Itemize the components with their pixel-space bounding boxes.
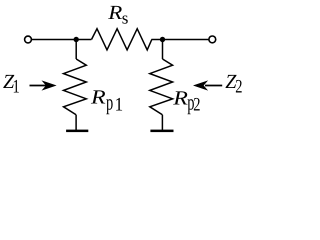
wire: node B down to Rp2 <box>162 40 164 60</box>
svg-text:R: R <box>172 87 188 109</box>
wire: Rp1 to ground <box>75 115 77 131</box>
wire: Rs to right terminal <box>151 39 208 41</box>
resistor Rp1 <box>64 59 87 115</box>
wire: left terminal to Rs <box>32 39 91 41</box>
ground (right bar) <box>150 130 173 133</box>
svg-text:R: R <box>107 2 122 24</box>
resistor Rs <box>92 29 152 50</box>
resistor Rp2 <box>150 59 173 115</box>
svg-text:2: 2 <box>235 76 242 97</box>
terminal T2 (right open circle) <box>209 36 216 43</box>
svg-text:2: 2 <box>193 94 200 115</box>
wire: node A down to Rp1 <box>75 40 77 60</box>
svg-text:p: p <box>106 90 113 115</box>
node B (junction dot right) <box>160 37 165 42</box>
node A (junction dot left) <box>74 37 79 42</box>
terminal T1 (left open circle) <box>25 36 32 43</box>
svg-text:1: 1 <box>115 94 124 115</box>
wire: Rp2 to ground <box>161 115 163 131</box>
svg-text:1: 1 <box>13 76 20 97</box>
svg-text:R: R <box>90 87 106 109</box>
arrow Z1 (points right at Rp1) <box>30 81 56 90</box>
arrow Z2 (points left at Rp2) <box>194 81 222 90</box>
svg-text:s: s <box>122 8 129 27</box>
ground (left bar) <box>66 130 88 133</box>
